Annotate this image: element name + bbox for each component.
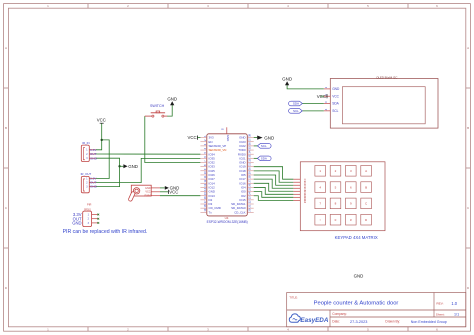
U4 left pin 6 IO35: [200, 156, 215, 161]
svg-text:Drawn By:: Drawn By:: [385, 320, 400, 324]
U4 left pin 14 GND: [200, 187, 215, 193]
U4 right pin 32 GND: [239, 158, 254, 164]
svg-text:GND: GND: [128, 164, 138, 169]
keypad key C: [361, 198, 372, 209]
keypad key 4: [315, 182, 326, 193]
svg-text:SDA: SDA: [261, 157, 267, 161]
svg-text:PWM: PWM: [144, 195, 150, 198]
U4 left pin 15 IO13: [200, 192, 215, 198]
U4 left pin 10 IO26: [200, 171, 215, 177]
svg-text:VCC: VCC: [145, 191, 150, 194]
U4 right pin 27 IO16: [239, 179, 253, 185]
U4 left pin 18 CD_CMD: [200, 204, 220, 210]
svg-text:A: A: [467, 46, 469, 50]
U4 right pin 33 IO21: [239, 154, 253, 160]
keypad key 0: [330, 214, 341, 225]
ground flag (servo): [165, 186, 180, 191]
U4 left pin 12 IO14: [200, 179, 215, 185]
U4 left pin 16 D2: [200, 196, 212, 202]
svg-text:Non Embedded Group: Non Embedded Group: [411, 320, 447, 324]
svg-text:SCL: SCL: [293, 109, 299, 113]
U4 right pin 25 IO0: [241, 187, 254, 193]
connector IR_IN: [81, 141, 97, 162]
keypad key 2: [330, 166, 341, 177]
svg-text:REV:: REV:: [436, 302, 443, 306]
wire servo VCC: [160, 191, 168, 193]
keypad key 7: [315, 198, 326, 209]
U4 left pin 9 IO25: [200, 168, 215, 173]
net flag SDA at OLED: [289, 101, 303, 106]
net flag SCL at OLED: [289, 109, 303, 114]
svg-text:KEYPAD 4X4 MATRIX: KEYPAD 4X4 MATRIX: [335, 235, 378, 240]
keypad key 8: [330, 198, 341, 209]
keypad pin 8 R4: [293, 200, 307, 204]
OLED pin 1 GND: [324, 86, 340, 91]
svg-text:A: A: [5, 46, 7, 50]
U4 right pin 35 TXD0: [238, 146, 253, 152]
svg-text:GND: GND: [90, 185, 98, 189]
power flag VCC (U4 3V3): [188, 135, 201, 140]
power flag VCC (left): [97, 117, 106, 123]
connector PIR: [72, 203, 99, 227]
svg-text:PIR can be replaced with IR in: PIR can be replaced with IR infrared.: [63, 229, 148, 235]
U4 left pin 4 SENSOR_VN: [200, 147, 226, 152]
svg-text:Tx: Tx: [209, 210, 213, 214]
net flag SDA at U4 IO21: [257, 156, 271, 161]
OLED display module: [324, 75, 438, 128]
wire OLED SCL: [302, 110, 324, 112]
keypad key 9: [346, 198, 357, 209]
keypad key *: [315, 214, 326, 225]
junction GND node: [118, 165, 120, 167]
svg-text:IR_OUT: IR_OUT: [81, 172, 92, 176]
wire U4 to keypad pin 1: [254, 167, 294, 180]
OLED pin 3 SDA: [324, 101, 340, 106]
svg-text:B: B: [5, 126, 7, 130]
wire servo PWM to U4 IO13: [160, 195, 200, 197]
wire VCC to IR_IN pin1: [96, 123, 102, 150]
keypad key A: [361, 166, 372, 177]
U4 right pin 36 IO22: [239, 142, 253, 148]
svg-text:GND: GND: [145, 187, 151, 190]
U4 right pin 20 CD_CLK: [234, 208, 254, 214]
U4 right pin 30 IO18: [239, 167, 253, 173]
wire stub to GND flag: [120, 165, 124, 167]
U4 right pin 28 IO17: [239, 175, 253, 181]
keypad pin 1 C1: [293, 179, 307, 183]
svg-text:Sheet:: Sheet:: [436, 313, 445, 317]
svg-text:GND: GND: [90, 156, 98, 160]
servo motor (door actuator): [130, 185, 160, 199]
keypad pin 2 C2: [293, 182, 307, 186]
svg-text:EasyEDA: EasyEDA: [300, 317, 328, 324]
U4 right pin 37 IO23: [239, 138, 253, 144]
svg-text:A: A: [365, 169, 367, 173]
keypad key 1: [315, 166, 326, 177]
wire OLED GND: [287, 85, 324, 89]
svg-text:R4: R4: [303, 200, 307, 204]
keypad 4x4 matrix body: [300, 162, 385, 231]
svg-text:SDA: SDA: [293, 102, 299, 106]
svg-text:SCL: SCL: [332, 109, 338, 113]
keypad key 3: [346, 166, 357, 177]
U4 top pin 39 GND: [221, 127, 230, 141]
wire U4 to keypad pin 8: [254, 196, 294, 201]
svg-text:ESP32-WROOM-32E(16MB): ESP32-WROOM-32E(16MB): [207, 220, 248, 224]
svg-text:1/1: 1/1: [454, 313, 459, 317]
wire U4 to keypad pin 2: [254, 171, 294, 182]
keypad key D: [361, 214, 372, 225]
svg-text:PIR: PIR: [87, 203, 91, 207]
keypad pin 6 R2: [293, 194, 307, 198]
svg-text:VCC: VCC: [169, 190, 178, 195]
svg-text:VCC: VCC: [97, 117, 106, 122]
wire OLED SDA: [302, 103, 324, 105]
U4 left pin 1 3V3: [200, 135, 214, 140]
U4 left pin 5 IO34: [200, 152, 215, 157]
keypad pin 5 R1: [293, 191, 307, 195]
U4 left pin 13 IO12: [200, 183, 215, 189]
U4 right pin 38 GND: [239, 133, 254, 139]
keypad pin 3 C3: [293, 185, 307, 189]
svg-text:GND: GND: [72, 220, 81, 225]
svg-text:GND: GND: [332, 87, 340, 91]
U4 right pin 24 IO2: [241, 192, 254, 198]
svg-text:GND: GND: [264, 135, 275, 140]
power flag VCC (servo): [168, 190, 178, 195]
svg-text:VCC: VCC: [188, 135, 197, 140]
svg-text:SCL: SCL: [261, 144, 267, 148]
U4 right pin 34 RXD0: [238, 150, 254, 156]
wire U4 to keypad pin 6: [254, 187, 294, 194]
wire U4 to keypad pin 4: [254, 179, 294, 188]
svg-text:GND: GND: [282, 76, 293, 81]
U4 left pin 2 EN: [200, 139, 212, 144]
svg-text:Date:: Date:: [332, 320, 340, 324]
U4 right pin 21 SD_DATA0: [231, 204, 254, 210]
keypad key 6: [346, 182, 357, 193]
wire U4 to keypad pin 7: [254, 192, 294, 198]
svg-text:GND: GND: [167, 96, 177, 101]
svg-text:People counter & Automatic doo: People counter & Automatic door: [314, 300, 399, 306]
U4 left pin 17 D3: [200, 200, 212, 206]
keypad key 5: [330, 182, 341, 193]
ground flag (OLED): [282, 76, 293, 85]
net flag SCL at U4 IO22: [257, 144, 271, 149]
U4 left pin 8 IO33: [200, 164, 215, 169]
wire IR_IN OUT to U4 IO34: [96, 153, 200, 155]
svg-text:CD_CLK: CD_CLK: [234, 210, 245, 214]
wire SWITCH to U4 IO32: [145, 116, 201, 162]
svg-text:B: B: [467, 126, 469, 130]
wire IR_IN GND to IR_OUT GND: [96, 158, 120, 186]
U4 left pin 11 IO27: [200, 175, 215, 181]
switch SWITCH (pushbutton): [145, 104, 167, 117]
svg-text:GND: GND: [354, 273, 364, 278]
U4 left pin 19 Tx: [200, 208, 212, 214]
wire IR_OUT OUT to U4 IO35: [96, 158, 200, 182]
junction VCC node: [101, 139, 103, 141]
keypad pin 4 C4: [293, 188, 307, 192]
wire SWITCH to GND: [167, 105, 172, 116]
svg-text:Company:: Company:: [332, 312, 347, 316]
EasyEDA logo: [289, 314, 329, 324]
svg-text:TITLE:: TITLE:: [289, 296, 298, 300]
ground flag (U4 GND): [254, 135, 275, 140]
U4 right pin 29 IO5: [241, 171, 254, 177]
U4 left pin 7 IO32: [200, 160, 215, 165]
svg-text:GND: GND: [226, 135, 230, 141]
svg-text:OLED 96x64 I2C: OLED 96x64 I2C: [376, 75, 397, 79]
connector IR_OUT: [81, 172, 98, 193]
svg-text:VCC: VCC: [332, 94, 339, 98]
svg-text:27-3-2023: 27-3-2023: [350, 320, 367, 324]
svg-text:B: B: [365, 185, 367, 189]
keypad key #: [346, 214, 357, 225]
ground flag (switch): [167, 96, 177, 105]
power flag VCC (OLED): [317, 94, 327, 99]
ground flag (left): [123, 164, 138, 169]
keypad key B: [361, 182, 372, 193]
OLED pin 4 SCL: [324, 108, 339, 113]
U4 right pin 23 IO15: [239, 196, 253, 202]
IC U4 ESP32-WROOM-32E body: [207, 134, 248, 216]
OLED pin 2 VCC: [324, 94, 340, 99]
U4 right pin 31 IO19: [239, 163, 253, 169]
title block: [287, 293, 466, 327]
wire U4 to keypad pin 5: [254, 183, 294, 191]
U4 left pin 3 SENSOR_VP: [200, 143, 226, 148]
wire VCC branch to IR_OUT pin1: [96, 140, 109, 179]
svg-text:1.0: 1.0: [451, 301, 457, 306]
wire U4 to keypad pin 3: [254, 175, 294, 185]
svg-text:SDA: SDA: [332, 102, 339, 106]
svg-text:SWITCH: SWITCH: [150, 104, 165, 108]
U4 right pin 22 SD_DATA1: [231, 200, 254, 206]
svg-text:IR_IN: IR_IN: [82, 141, 89, 145]
keypad pin 7 R3: [293, 197, 307, 201]
wire servo GND: [160, 187, 165, 189]
U4 right pin 26 IO4: [241, 183, 254, 189]
